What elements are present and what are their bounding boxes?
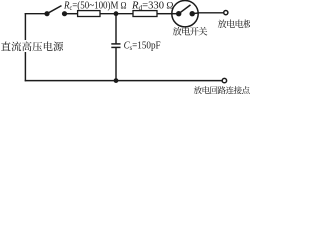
wire node A down to Cs (115, 14, 117, 44)
resistor Rd body (133, 11, 157, 17)
label Rd=330 Ω (131, 1, 174, 13)
label 直流高压电源 (DC HV supply) (1, 41, 63, 51)
wire Rc to node A (100, 13, 133, 15)
resistor Rc body (78, 11, 100, 17)
wire Cs down to node B (115, 47, 117, 80)
wire bottom rail (25, 80, 222, 82)
wire Rd to switch S2 (157, 13, 172, 15)
switch S2 left contact (176, 11, 181, 16)
capacitor Cs bottom plate (111, 46, 120, 48)
node B (bottom junction) (114, 78, 119, 83)
terminal: discharge electrode (224, 11, 228, 15)
label 放电开关 (discharge switch) (173, 27, 208, 36)
node switch S1 right (62, 11, 67, 16)
switch S1 blade (charging switch, open) (47, 6, 62, 14)
label Cs=150pF (124, 40, 161, 52)
capacitor Cs top plate (111, 43, 120, 45)
wire left rail lower (24, 52, 26, 81)
switch S2 right contact (190, 11, 195, 16)
switch S2 blade (179, 5, 191, 14)
discharge switch S2 circle (172, 1, 198, 27)
wire S2 circle edge to left contact (172, 13, 179, 15)
wire top-left segment (25, 13, 47, 15)
label Rc=(50~100)M Ω (63, 1, 127, 13)
wire left rail upper (24, 13, 26, 40)
label 放电回路连接点 (discharge return connection point) (194, 86, 250, 94)
wire S2 to discharge electrode (198, 12, 223, 14)
terminal: discharge return connection (222, 78, 226, 82)
wire S2 right contact to circle edge (192, 12, 198, 15)
svg-text:Rc=(50~100)M Ω: Rc=(50~100)M Ω (63, 1, 127, 13)
node A (top junction) (114, 11, 119, 16)
svg-text:Rd=330 Ω: Rd=330 Ω (131, 1, 174, 13)
node switch S1 left (44, 11, 49, 16)
svg-text:Cs=150pF: Cs=150pF (124, 40, 161, 52)
label 放电电极 (discharge electrode) (218, 20, 252, 29)
wire S1 to Rc (65, 13, 78, 15)
